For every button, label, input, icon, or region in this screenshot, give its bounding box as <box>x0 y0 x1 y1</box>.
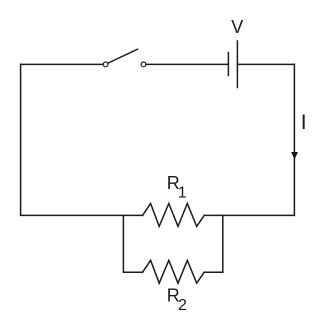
wire bottom-left horizontal <box>21 214 143 216</box>
switch S1 lever <box>108 49 138 63</box>
node left junction branch vertical <box>122 215 124 272</box>
svg-text:I: I <box>301 111 307 134</box>
svg-text:1: 1 <box>178 185 187 202</box>
wire top-left horizontal <box>21 63 104 65</box>
wire right vertical <box>293 64 295 215</box>
resistor R2 <box>143 260 205 283</box>
resistor R1 <box>143 204 205 227</box>
wire switch to battery <box>146 63 228 65</box>
wire left vertical <box>20 64 22 215</box>
current arrow I <box>291 152 298 159</box>
node right junction branch vertical <box>222 215 224 272</box>
wire branch bottom-left <box>123 271 142 273</box>
wire battery to top-right corner <box>237 63 294 65</box>
wire bottom-right horizontal <box>204 214 294 216</box>
switch S1 left terminal <box>103 62 108 67</box>
svg-text:V: V <box>231 17 243 37</box>
switch S1 right terminal <box>141 62 146 67</box>
wire branch bottom-right <box>204 271 223 273</box>
battery V positive plate <box>236 41 238 88</box>
svg-text:2: 2 <box>178 297 187 314</box>
battery V negative plate <box>227 53 229 76</box>
